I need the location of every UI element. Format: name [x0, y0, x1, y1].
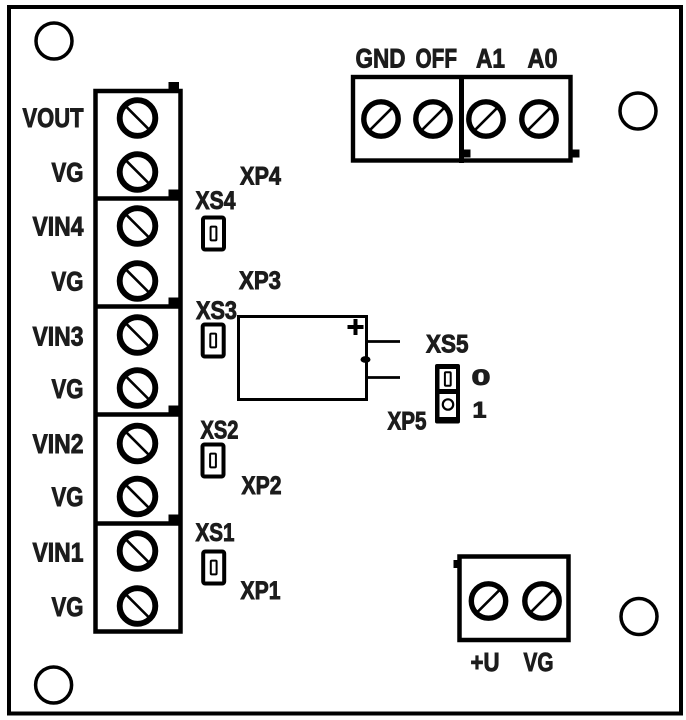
terminal block left divider 2: [94, 304, 183, 309]
svg-text:0: 0: [472, 365, 491, 390]
svg-text:VG: VG: [52, 482, 84, 512]
svg-text:XS2: XS2: [201, 417, 239, 445]
svg-text:A1: A1: [476, 44, 505, 74]
component box U1: [239, 317, 367, 400]
terminal block bottom outline: [460, 557, 569, 641]
screw terminal OFF: [416, 102, 450, 136]
screw terminal VIN3: [120, 317, 156, 353]
svg-text:VIN2: VIN2: [33, 429, 84, 459]
svg-text:VG: VG: [524, 647, 554, 677]
screw terminal +U: [471, 584, 505, 618]
screw terminal VG of VOUT: [120, 154, 156, 190]
screw terminal GND: [364, 102, 398, 136]
wire lead top of U1: [368, 340, 400, 343]
terminal block left divider 1: [94, 196, 183, 201]
mounting hole bottom-right: [621, 599, 657, 635]
svg-text:XS5: XS5: [426, 331, 469, 359]
mounting hole top-right: [620, 93, 656, 129]
screw terminal VIN1: [120, 533, 156, 569]
terminal block top divider: [459, 75, 464, 163]
svg-text:A0: A0: [528, 44, 558, 74]
svg-text:VG: VG: [52, 158, 84, 188]
screw terminal A1: [469, 102, 503, 136]
svg-text:OFF: OFF: [416, 44, 458, 74]
svg-text:XP4: XP4: [240, 163, 281, 191]
svg-text:VIN1: VIN1: [33, 538, 84, 568]
screw terminal VG of VIN1: [120, 588, 156, 624]
svg-text:XS3: XS3: [196, 297, 237, 325]
jumper XS1: [203, 552, 224, 584]
svg-text:XP5: XP5: [388, 408, 427, 436]
jumper XS5 position 0 cell: [440, 369, 457, 389]
pin-1 tab section VIN3: [169, 298, 180, 306]
svg-text:XP1: XP1: [241, 577, 281, 605]
svg-text:VG: VG: [52, 374, 84, 404]
svg-text:XS1: XS1: [196, 519, 235, 547]
screw terminal VG of VIN2: [120, 479, 156, 515]
pin-1 tab bottom block: [454, 560, 462, 568]
jumper XS4: [203, 218, 224, 250]
node dot on U1 right edge: [361, 356, 371, 363]
svg-text:+U: +U: [471, 647, 500, 677]
wire lead bottom of U1: [368, 376, 400, 379]
mounting hole top-left: [36, 23, 72, 59]
pin-1 tab section GND/OFF: [464, 150, 471, 158]
screw terminal VG of VIN3: [120, 370, 156, 406]
pin-1 tab section A1/A0: [573, 150, 580, 158]
svg-text:VIN4: VIN4: [33, 212, 84, 242]
svg-text:VG: VG: [52, 592, 84, 622]
terminal block top outline: [353, 77, 571, 161]
jumper XS3: [203, 325, 224, 357]
svg-text:VOUT: VOUT: [23, 103, 84, 133]
jumper XS5 open pin circle: [443, 399, 453, 409]
svg-text:XP3: XP3: [239, 267, 281, 295]
jumper XS5 position 1 cell: [440, 394, 457, 417]
polarity mark +: [348, 319, 364, 335]
screw terminal VIN2: [120, 426, 156, 462]
jumper XS2: [203, 445, 224, 477]
screw terminal A0: [522, 102, 556, 136]
pin-1 tab section VIN4: [169, 190, 180, 198]
mounting hole bottom-left: [36, 667, 72, 703]
svg-text:GND: GND: [356, 44, 406, 74]
svg-text:VG: VG: [52, 267, 84, 297]
pin-1 tab section VIN1: [169, 515, 180, 523]
jumper XS5 body: [435, 364, 460, 424]
jumper XS5 shunt slot: [445, 372, 451, 386]
screw terminal VG bottom: [525, 584, 559, 618]
pin-1 tab section VIN2: [169, 406, 180, 414]
svg-text:1: 1: [473, 398, 487, 423]
svg-text:XP2: XP2: [242, 472, 282, 500]
pin-1 tab section VOUT: [169, 82, 180, 90]
screw terminal VOUT: [120, 100, 156, 136]
svg-text:XS4: XS4: [196, 187, 236, 215]
terminal block left outline: [96, 91, 181, 632]
screw terminal VIN4: [120, 208, 156, 244]
terminal block left divider 4: [94, 521, 183, 526]
terminal block left divider 3: [94, 412, 183, 417]
screw terminal VG of VIN4: [120, 263, 156, 299]
svg-text:VIN3: VIN3: [33, 322, 84, 352]
